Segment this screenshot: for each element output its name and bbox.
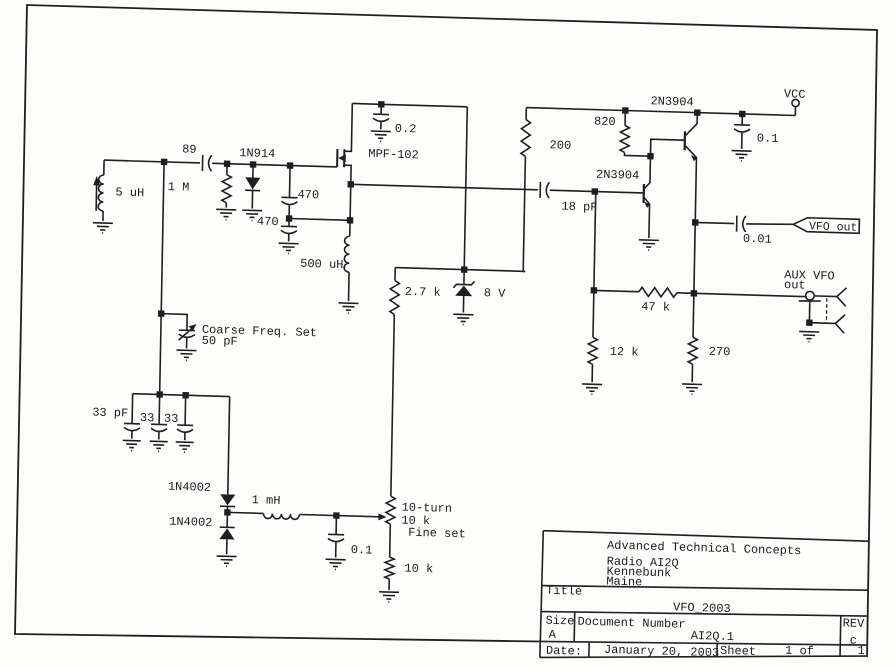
- node rail j2: [182, 392, 189, 399]
- potentiometer 10-turn 10 k Fine set: [378, 496, 466, 542]
- wire top rail left: [352, 103, 467, 106]
- ground for L2: [338, 303, 358, 314]
- ground for D4: [216, 556, 236, 567]
- transistor Q1 MPF-102 JFET: [337, 103, 420, 186]
- diode D4 1N4002: [169, 511, 235, 555]
- connector J1 aux jack: [798, 286, 846, 333]
- svg-text:470: 470: [257, 215, 279, 230]
- resistor 12 k: [588, 337, 639, 383]
- svg-text:Title: Title: [546, 584, 582, 599]
- ground for C4: [371, 131, 391, 142]
- svg-text:0.1: 0.1: [757, 131, 779, 146]
- svg-text:10 k: 10 k: [404, 562, 433, 577]
- resistor 47 k: [593, 286, 694, 315]
- node B junction: [286, 215, 293, 222]
- ground for 270: [682, 384, 702, 395]
- capacitor C8 0.1: [328, 515, 373, 558]
- capacitor 89: [182, 142, 212, 171]
- ground 33pF b: [150, 441, 168, 452]
- title block: [540, 531, 868, 667]
- svg-text:18 pF: 18 pF: [561, 200, 597, 215]
- transistor Q3 2N3904: [648, 94, 698, 222]
- ground for C8: [325, 559, 345, 570]
- ground for zener: [453, 314, 473, 325]
- svg-text:A: A: [549, 628, 557, 642]
- capacitor 33 b: [164, 395, 194, 441]
- diode D2 zener 8 V: [453, 269, 507, 313]
- ground for C5: [731, 151, 751, 162]
- svg-text:2.7 k: 2.7 k: [405, 285, 441, 300]
- inductor L1 5 uH: [93, 160, 145, 222]
- svg-text:12 k: 12 k: [610, 345, 639, 360]
- capacitor C3 470 lower: [257, 215, 297, 242]
- svg-text:1 of: 1 of: [785, 644, 814, 659]
- wire collector to Q3 base: [650, 139, 684, 157]
- diode D1 1N914: [238, 146, 275, 209]
- wire rail to diodes: [228, 397, 230, 495]
- wire node B to source: [289, 218, 350, 220]
- ground for 12k: [582, 384, 602, 395]
- ground for C3: [278, 243, 298, 254]
- ground for L1: [93, 223, 113, 234]
- svg-text:REV: REV: [843, 616, 866, 631]
- wire node A drop: [160, 162, 164, 395]
- svg-text:1N4002: 1N4002: [168, 480, 211, 495]
- wire emitter drop: [694, 222, 695, 293]
- svg-text:0.01: 0.01: [743, 232, 772, 247]
- resistor 10 k lower: [385, 524, 435, 591]
- wire source to 18pF: [351, 184, 538, 190]
- ground 33pF a: [123, 440, 141, 451]
- inductor L3 1 mH: [227, 492, 379, 521]
- svg-text:1N4002: 1N4002: [169, 515, 212, 530]
- wire gate rail right: [212, 163, 337, 167]
- capacitor C2 470 upper: [281, 162, 320, 216]
- svg-text:1 M: 1 M: [168, 180, 190, 195]
- svg-text:50 pF: 50 pF: [202, 334, 238, 349]
- node 47k left: [591, 287, 598, 294]
- wire vcc rail: [526, 108, 795, 116]
- svg-text:2N3904: 2N3904: [596, 168, 639, 183]
- svg-text:VFO_2003: VFO_2003: [673, 600, 731, 616]
- svg-text:200: 200: [549, 138, 571, 153]
- wire aux rail: [694, 293, 807, 296]
- svg-text:0.2: 0.2: [395, 122, 417, 137]
- ground for 10k: [379, 592, 399, 603]
- capacitor C6 18 pF: [540, 182, 598, 215]
- inductor L2 500 uH: [300, 235, 350, 301]
- node source lower junction: [347, 217, 354, 224]
- variable capacitor coarse 50 pF: [161, 314, 318, 353]
- svg-text:VFO out: VFO out: [809, 220, 858, 234]
- svg-text:33: 33: [164, 412, 179, 426]
- size row: [545, 608, 865, 651]
- node A junction: [161, 159, 168, 166]
- date row: [546, 635, 865, 667]
- node coarse junction: [158, 310, 165, 317]
- svg-text:Maine: Maine: [606, 574, 642, 589]
- svg-text:500 uH: 500 uH: [300, 257, 343, 272]
- wire gate rail left: [104, 160, 200, 163]
- svg-text:470: 470: [297, 188, 319, 203]
- svg-text:33: 33: [140, 411, 155, 425]
- diode D3 1N4002: [167, 480, 235, 513]
- svg-text:33 pF: 33 pF: [92, 406, 128, 421]
- capacitor 33 a: [140, 394, 168, 440]
- wire feedback drop: [593, 192, 596, 338]
- svg-text:VCC: VCC: [784, 87, 806, 102]
- node Q3 collector on rail: [694, 109, 701, 116]
- svg-text:89: 89: [182, 142, 197, 156]
- wire source drop: [349, 184, 352, 236]
- svg-text:out: out: [784, 278, 806, 293]
- svg-text:0.1: 0.1: [351, 543, 373, 558]
- svg-text:Size: Size: [545, 614, 574, 629]
- svg-text:1: 1: [857, 644, 864, 658]
- wire 33pF rail: [133, 394, 230, 397]
- title text company: [606, 539, 801, 595]
- node 47k right: [691, 290, 698, 297]
- node VFO junction: [692, 219, 699, 226]
- power VCC: [784, 87, 806, 116]
- wire 18pF to base: [550, 190, 644, 193]
- svg-text:8 V: 8 V: [484, 286, 507, 301]
- node varactor junction: [224, 509, 231, 516]
- svg-text:Sheet: Sheet: [720, 644, 756, 659]
- svg-text:Document Number: Document Number: [577, 615, 685, 632]
- ground for Q2: [639, 240, 659, 251]
- node zener junction: [461, 266, 468, 273]
- node source junction: [348, 181, 355, 188]
- svg-text:Date:: Date:: [546, 644, 582, 659]
- capacitor 33 pF: [92, 393, 141, 439]
- wire bias rail: [395, 268, 525, 272]
- resistor 200: [519, 107, 572, 272]
- svg-text:820: 820: [594, 115, 616, 130]
- capacitor C4 0.2: [373, 101, 417, 136]
- resistor 820: [593, 106, 651, 156]
- label AUX VFO out: [784, 268, 835, 293]
- svg-text:47 k: 47 k: [641, 300, 670, 315]
- ground for aux: [799, 331, 819, 342]
- svg-text:1N914: 1N914: [239, 146, 275, 161]
- title row: [546, 584, 731, 616]
- node base junction: [592, 188, 599, 195]
- resistor 270: [688, 293, 732, 383]
- flag VFO out: [793, 217, 859, 234]
- resistor 2.7 k: [390, 267, 441, 315]
- resistor 1 M: [167, 159, 231, 208]
- svg-text:5 uH: 5 uH: [115, 185, 144, 200]
- svg-text:Fine set: Fine set: [408, 526, 466, 542]
- ground for 1 M: [216, 209, 236, 220]
- capacitor C5 0.1: [734, 111, 779, 150]
- svg-text:270: 270: [709, 345, 731, 360]
- ground for coarse cap: [176, 350, 196, 361]
- node Q2 collector junction: [647, 153, 654, 160]
- svg-text:c: c: [850, 634, 857, 648]
- svg-text:2N3904: 2N3904: [650, 94, 693, 109]
- svg-text:1 mH: 1 mH: [252, 493, 281, 508]
- ground 33pF c: [176, 442, 194, 453]
- svg-text:MPF-102: MPF-102: [368, 147, 419, 162]
- node fine junction: [333, 512, 340, 519]
- wire 2.7k to pot: [391, 314, 394, 496]
- wire top rail drop: [464, 107, 467, 270]
- svg-text:AI2Q.1: AI2Q.1: [691, 629, 734, 644]
- ground for D1: [242, 210, 262, 221]
- node rail j1: [156, 391, 163, 398]
- capacitor C7 0.01: [695, 214, 794, 247]
- transistor Q2 2N3904: [595, 155, 651, 238]
